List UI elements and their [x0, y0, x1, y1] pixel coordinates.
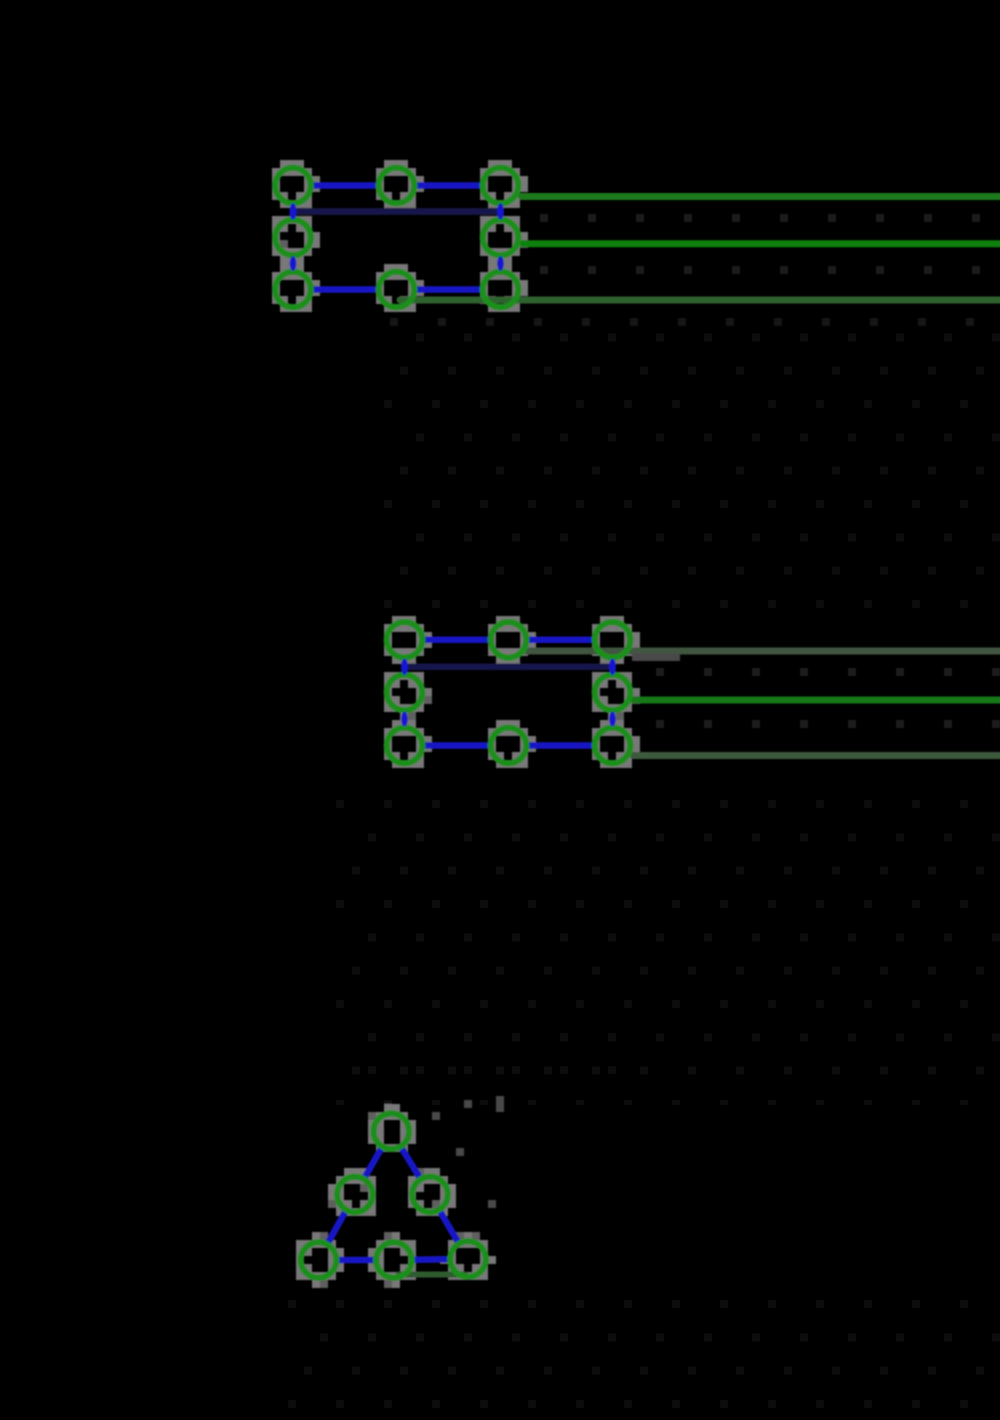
node g2 n4 — [595, 675, 631, 711]
wire long line g1 — [519, 240, 1000, 247]
node g3 BM — [376, 1242, 412, 1278]
wire edge g2 r3b — [528, 742, 594, 749]
node g2 diamond lower (arrow capsule) — [401, 712, 408, 727]
gray artifact halos g1 — [272, 160, 528, 312]
node g2 n7 — [595, 728, 631, 764]
wire edge g3 BL-BM — [338, 1257, 375, 1264]
faint text artifact region A — [380, 333, 1000, 618]
graph g1 (grid graph) — [272, 160, 1000, 312]
gray artifact halos g3 — [296, 1104, 496, 1288]
faint text artifact region B — [335, 775, 1000, 1105]
node g2 diamond (arrow capsule) — [609, 659, 616, 675]
wire edge g2 r1a — [424, 637, 490, 644]
node g2 n6 — [491, 728, 527, 764]
wire vert g2 lower — [403, 712, 407, 728]
node g2 n5 — [387, 728, 423, 764]
wire edge g3 T-MR — [401, 1147, 420, 1178]
node g1 n4 — [483, 220, 519, 256]
node g1 n0 — [275, 168, 311, 204]
wire long line g2 — [630, 697, 1000, 704]
wire edge g1 r3a — [312, 286, 378, 293]
brighter text dots region B lower-left — [368, 1033, 376, 1041]
wire long line g2 — [630, 752, 1000, 759]
node g2 n1 — [491, 622, 527, 658]
wire long line g2 — [523, 648, 1000, 655]
wire edge g3 BM-BR — [413, 1256, 449, 1263]
wire green seg g3 — [396, 1272, 468, 1278]
gray artifact halos g2 — [384, 616, 640, 768]
text artifact dot row under g1 — [390, 318, 398, 326]
node g1 n3 — [275, 220, 311, 256]
wire edge g2 r1b — [528, 637, 594, 644]
text artifact dots g2 area — [656, 668, 664, 676]
node g1 diamond lower (arrow capsule) — [290, 256, 297, 271]
wire edge g3 ML-BL — [328, 1211, 346, 1243]
node g3 T — [374, 1113, 410, 1149]
node g1 n7 — [483, 272, 519, 308]
graph g3 (triangle graph) — [296, 1096, 504, 1288]
wire navy line g1 — [293, 208, 501, 215]
node g1 diamond lower (arrow capsule) — [497, 256, 504, 271]
node g1 n2 — [483, 168, 519, 204]
wire edge g3 T-ML — [364, 1148, 381, 1178]
wire vert g1 — [499, 203, 503, 220]
wire long line g1 — [518, 193, 1000, 200]
node g2 n3 — [387, 675, 423, 711]
graph g2 (grid graph) — [384, 616, 1000, 768]
node g1 n6 — [379, 272, 415, 308]
wire vert g1 lower — [499, 256, 503, 272]
node g2 n0 — [387, 622, 423, 658]
wire edge g1 r1b — [416, 182, 482, 189]
wire vert g2 — [611, 658, 615, 675]
wire long line g1 — [397, 297, 1000, 304]
node g2 n2 — [595, 622, 631, 658]
wire edge g2 r3a — [424, 742, 490, 749]
node g2 diamond (arrow capsule) — [401, 659, 408, 675]
node g1 n1 — [379, 168, 415, 204]
node g1 diamond (arrow capsule) — [497, 203, 504, 219]
wire edge g1 r3b — [416, 286, 482, 293]
node g3 MR — [412, 1177, 448, 1213]
gray artifact blocks under g2 line1 — [632, 653, 640, 661]
wire edge g3 MR-BR — [440, 1211, 459, 1243]
node g1 diamond (arrow capsule) — [290, 203, 297, 219]
text artifact blocks near graph 3 — [432, 1112, 440, 1120]
wire navy line g2 — [405, 664, 613, 671]
wire vert g2 lower — [611, 712, 615, 728]
node g3 ML — [337, 1177, 373, 1213]
node g1 n5 — [275, 272, 311, 308]
node g2 diamond lower (arrow capsule) — [609, 712, 616, 727]
faint text artifact region C — [285, 1298, 1000, 1415]
wire vert g1 lower — [291, 256, 295, 272]
wire vert g2 — [403, 658, 407, 675]
node g3 BR — [450, 1241, 486, 1277]
wire vert g1 — [291, 203, 295, 220]
text artifact dots g1 area — [540, 214, 548, 222]
wire edge g1 r1a — [312, 182, 378, 189]
node g3 BL — [301, 1242, 337, 1278]
